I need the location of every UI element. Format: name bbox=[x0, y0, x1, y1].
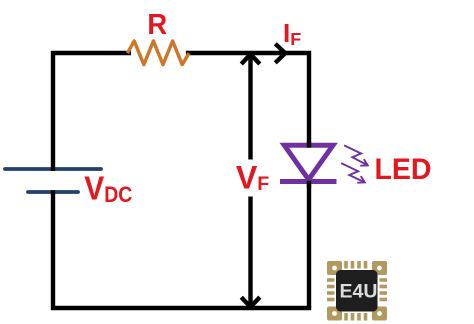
svg-text:E4U: E4U bbox=[340, 281, 378, 303]
svg-text:V: V bbox=[84, 171, 105, 208]
svg-text:LED: LED bbox=[375, 153, 432, 186]
svg-text:I: I bbox=[283, 18, 290, 48]
svg-text:DC: DC bbox=[104, 182, 132, 207]
svg-text:V: V bbox=[236, 160, 258, 196]
svg-text:F: F bbox=[257, 173, 269, 195]
svg-text:R: R bbox=[147, 9, 167, 41]
svg-text:F: F bbox=[290, 29, 301, 49]
